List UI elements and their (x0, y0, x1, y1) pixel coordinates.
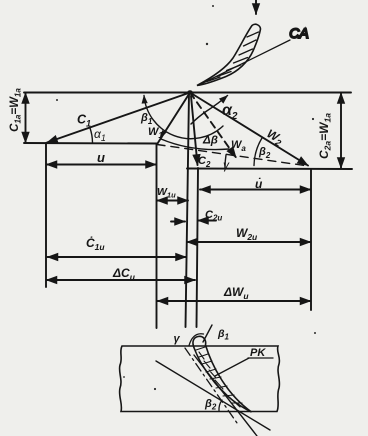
svg-text:CA: CA (289, 25, 308, 41)
svg-text:α2: α2 (222, 102, 238, 122)
dimension W2u (187, 241, 311, 243)
svg-text:γ: γ (223, 158, 230, 172)
nozzle blade CA hatching (207, 32, 259, 82)
leader line CA (199, 40, 290, 85)
vector Wa (dashed) (190, 93, 236, 158)
svg-text:β1: β1 (217, 328, 230, 342)
vector W2 (190, 93, 308, 166)
inlet flow arrow (255, 0, 257, 14)
arc alpha1 at C1 foot (90, 128, 93, 143)
extension line W2 foot (310, 169, 312, 310)
inlet direction line at blade LE (203, 325, 212, 342)
dash-dot chord of blade (185, 348, 237, 423)
svg-text:u: u (97, 150, 105, 165)
dimension u right (200, 189, 311, 191)
svg-text:β2: β2 (204, 398, 217, 412)
arc beta2 at W2 foot (254, 138, 262, 166)
svg-text:W2u: W2u (236, 226, 258, 242)
vector C1 (47, 93, 190, 143)
svg-text:u̇: u̇ (255, 176, 263, 191)
left baseline (24, 142, 157, 145)
svg-text:C2u: C2u (205, 209, 222, 223)
svg-text:γ: γ (174, 333, 181, 345)
svg-text:C2: C2 (198, 155, 211, 169)
dimension W1u (157, 200, 188, 202)
svg-text:W2: W2 (264, 126, 286, 148)
arc delta-beta at apex (161, 139, 229, 150)
right vertical dimension C2a=W2a (340, 93, 342, 168)
svg-text:ΔWu: ΔWu (223, 285, 249, 301)
top horizontal line (24, 92, 351, 94)
dimension C2u arrows (171, 221, 185, 223)
svg-text:C1a=W1a: C1a=W1a (9, 88, 23, 132)
arc beta2 bottom (219, 400, 222, 411)
specks (56, 5, 316, 390)
axis extension line from apex (186, 93, 190, 327)
svg-text:Δβ: Δβ (202, 135, 218, 147)
svg-text:Wa: Wa (231, 139, 246, 153)
left vertical dimension C1a=W1a (25, 93, 27, 143)
nozzle blade CA (197, 24, 261, 85)
right baseline (187, 168, 352, 171)
leader RK (215, 358, 249, 376)
svg-text:C1: C1 (77, 113, 91, 129)
extension line W1 foot (156, 144, 158, 328)
svg-text:W1u: W1u (157, 186, 176, 200)
dimension u left (47, 164, 157, 166)
chord dashed line W1 foot to W2 foot (157, 145, 308, 167)
svg-text:Ċ1u: Ċ1u (86, 235, 105, 252)
C2 foot extension line (197, 168, 199, 327)
svg-text:β1: β1 (140, 112, 153, 126)
apex junction blob (187, 90, 193, 94)
dimension dWu (158, 300, 311, 302)
dimension C1u (48, 256, 187, 258)
arc beta1 sweep at apex (144, 96, 223, 139)
vector C2 (191, 96, 198, 165)
underline RK (248, 357, 273, 359)
arc beta1 bottom (189, 334, 204, 346)
dimension dCu (47, 279, 196, 281)
rotor channel band (120, 346, 280, 412)
svg-text:C2a=W1a: C2a=W1a (317, 113, 333, 159)
svg-text:α1: α1 (94, 127, 106, 143)
arc gamma at W2 foot (225, 155, 226, 168)
svg-text:ΔCu: ΔCu (112, 266, 136, 282)
rotor blade RK (193, 336, 252, 412)
chord line B (194, 355, 257, 436)
arc alpha2 at apex (191, 96, 228, 125)
svg-text:β2: β2 (258, 146, 271, 160)
extension line x=46 (45, 143, 47, 287)
exit line A (156, 361, 270, 430)
vector W1 (158, 93, 191, 144)
rotor blade hatching (196, 347, 242, 407)
svg-text:PK: PK (250, 347, 266, 359)
